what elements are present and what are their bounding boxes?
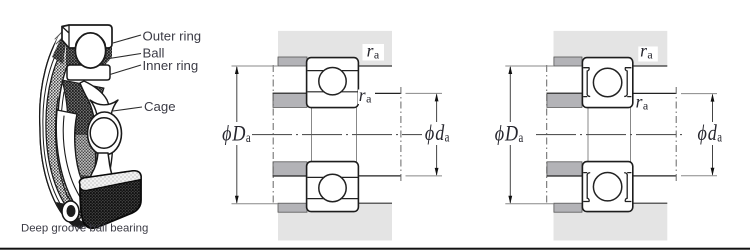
ball top (593, 68, 621, 96)
leader ball (106, 54, 141, 60)
dark zone behind ball (groove shadow) (66, 44, 112, 65)
outer ring band (perspective crescent, stippled) (40, 27, 88, 226)
shield left (bottom section) (583, 173, 590, 202)
shaft inner vertical lines (311, 108, 313, 162)
shield right (top section) (624, 68, 631, 97)
seat line top with fillets (584, 104, 630, 108)
phi da text (425, 121, 450, 145)
lighter lower part of dark band (68, 135, 110, 216)
spacer top line right of bearing (633, 92, 676, 94)
cage upper neck and tabs (90, 100, 118, 115)
svg-text:Cage: Cage (144, 99, 176, 114)
svg-text:ra: ra (636, 92, 649, 113)
outer rim white strip (40, 27, 79, 226)
inner arc line in bore band (63, 116, 102, 219)
shield left (top section) (583, 68, 590, 97)
spacer top line right of bearing (358, 92, 401, 94)
phi da dimension line (436, 94, 438, 122)
r_a label top (in housing) (638, 47, 658, 62)
svg-text:ϕDa: ϕDa (222, 122, 251, 146)
white oval at band tip (62, 201, 79, 222)
centerline (536, 134, 682, 136)
shaft shoulder bar top (547, 93, 582, 107)
svg-text:Inner ring: Inner ring (143, 58, 199, 73)
ball in cage (90, 118, 118, 148)
bearing outer section top (307, 58, 359, 108)
phi da extension lines (681, 93, 717, 95)
seat line bottom with fillets (308, 162, 356, 166)
vertical chain line left (272, 65, 274, 204)
phi Da text (222, 122, 251, 146)
shaft shoulder bottom line (273, 175, 308, 177)
hatch lines at band top (55, 32, 68, 50)
housing block bottom (278, 203, 392, 240)
inner ring cut section (67, 65, 110, 80)
raceway arc lines in white zone (55, 98, 68, 198)
vertical chain line right (400, 87, 402, 182)
r_a label top (in housing) (363, 44, 385, 61)
phi da extension lines (406, 92, 443, 94)
phi Da extension lines (505, 65, 554, 67)
svg-text:Outer ring: Outer ring (143, 29, 202, 44)
housing bore line right of bearing bottom (358, 202, 392, 204)
cage pocket ring (88, 112, 122, 155)
leader cage (113, 107, 142, 111)
ball bottom (593, 173, 621, 201)
bearing outer section top (582, 58, 632, 108)
phi Da dimension line (509, 67, 511, 122)
raceway lines top section (307, 70, 358, 72)
ball bottom (319, 174, 346, 201)
second rim arc line (43, 36, 76, 222)
shaft shoulder bar bottom (547, 162, 582, 176)
housing shoulder bar bottom (554, 203, 582, 212)
shaft shoulder bottom line (547, 175, 583, 177)
dark core in oval (67, 205, 76, 217)
dark wedge left of cage stem (80, 175, 99, 204)
inner ring front face band going to lower right (80, 81, 113, 197)
spacer bottom line right of bearing (358, 175, 401, 177)
phi Da text (495, 122, 524, 146)
ball (top) (75, 33, 105, 68)
svg-text:Deep groove ball bearing: Deep groove ball bearing (21, 223, 148, 235)
inner dark band (inner ring surface in perspective) (62, 80, 112, 216)
svg-text:ϕda: ϕda (425, 121, 450, 145)
bore white band bottom-left (56, 110, 108, 226)
outer ring cut section (top) (62, 25, 112, 48)
converging arcs near bottom tip (68, 196, 90, 224)
housing shoulder bar top (278, 57, 307, 66)
dark crescent at bottom tip (56, 202, 88, 229)
dark wedge upper left near section (52, 37, 67, 64)
leader inner ring (110, 65, 141, 75)
housing bore line right of bearing top (358, 65, 392, 67)
housing block bottom (554, 203, 668, 240)
housing shoulder bar bottom (278, 203, 307, 212)
shaft shoulder bar top (273, 93, 307, 107)
phi Da dimension line (236, 67, 238, 122)
vertical chain line left (546, 65, 548, 204)
shaft shoulder bar bottom (273, 162, 307, 176)
bearing outer section bottom (307, 162, 359, 212)
bottom rule (0, 248, 750, 250)
svg-text:ϕDa: ϕDa (495, 122, 524, 146)
shield right (bottom section) (624, 173, 631, 202)
housing shoulder bar top (554, 57, 582, 66)
housing block top (278, 31, 392, 66)
seat line top with fillets (308, 104, 356, 108)
cage stem down to block (90, 153, 114, 181)
phi da dimension line (712, 95, 714, 122)
centerline (252, 134, 422, 136)
housing bore line right of bearing bottom (633, 202, 668, 204)
white zone at band top (53, 28, 72, 57)
shaft shoulder top line (547, 92, 583, 94)
housing bore line right of bearing top (633, 65, 668, 67)
spacer bottom line right of bearing (633, 175, 676, 177)
ball top (319, 68, 346, 95)
svg-text:ϕda: ϕda (698, 121, 723, 145)
shaft shoulder top line (273, 92, 308, 94)
svg-text:ra: ra (359, 85, 372, 106)
r_a label near shaft (358, 90, 375, 105)
housing block top (554, 31, 668, 66)
dark hatched block bottom right (inner ring bottom) (80, 171, 142, 228)
phi da text (698, 121, 723, 145)
section leg inner edges (62, 25, 69, 47)
phi Da extension lines (232, 65, 279, 67)
seat line bottom with fillets (584, 162, 630, 166)
leader outer ring (113, 35, 141, 43)
vertical chain line right (675, 87, 677, 182)
shaft inner vertical lines (587, 108, 589, 162)
bearing outer section bottom (582, 162, 632, 212)
block top face (lighter) (80, 171, 142, 191)
raceway lines bottom section (307, 198, 358, 200)
